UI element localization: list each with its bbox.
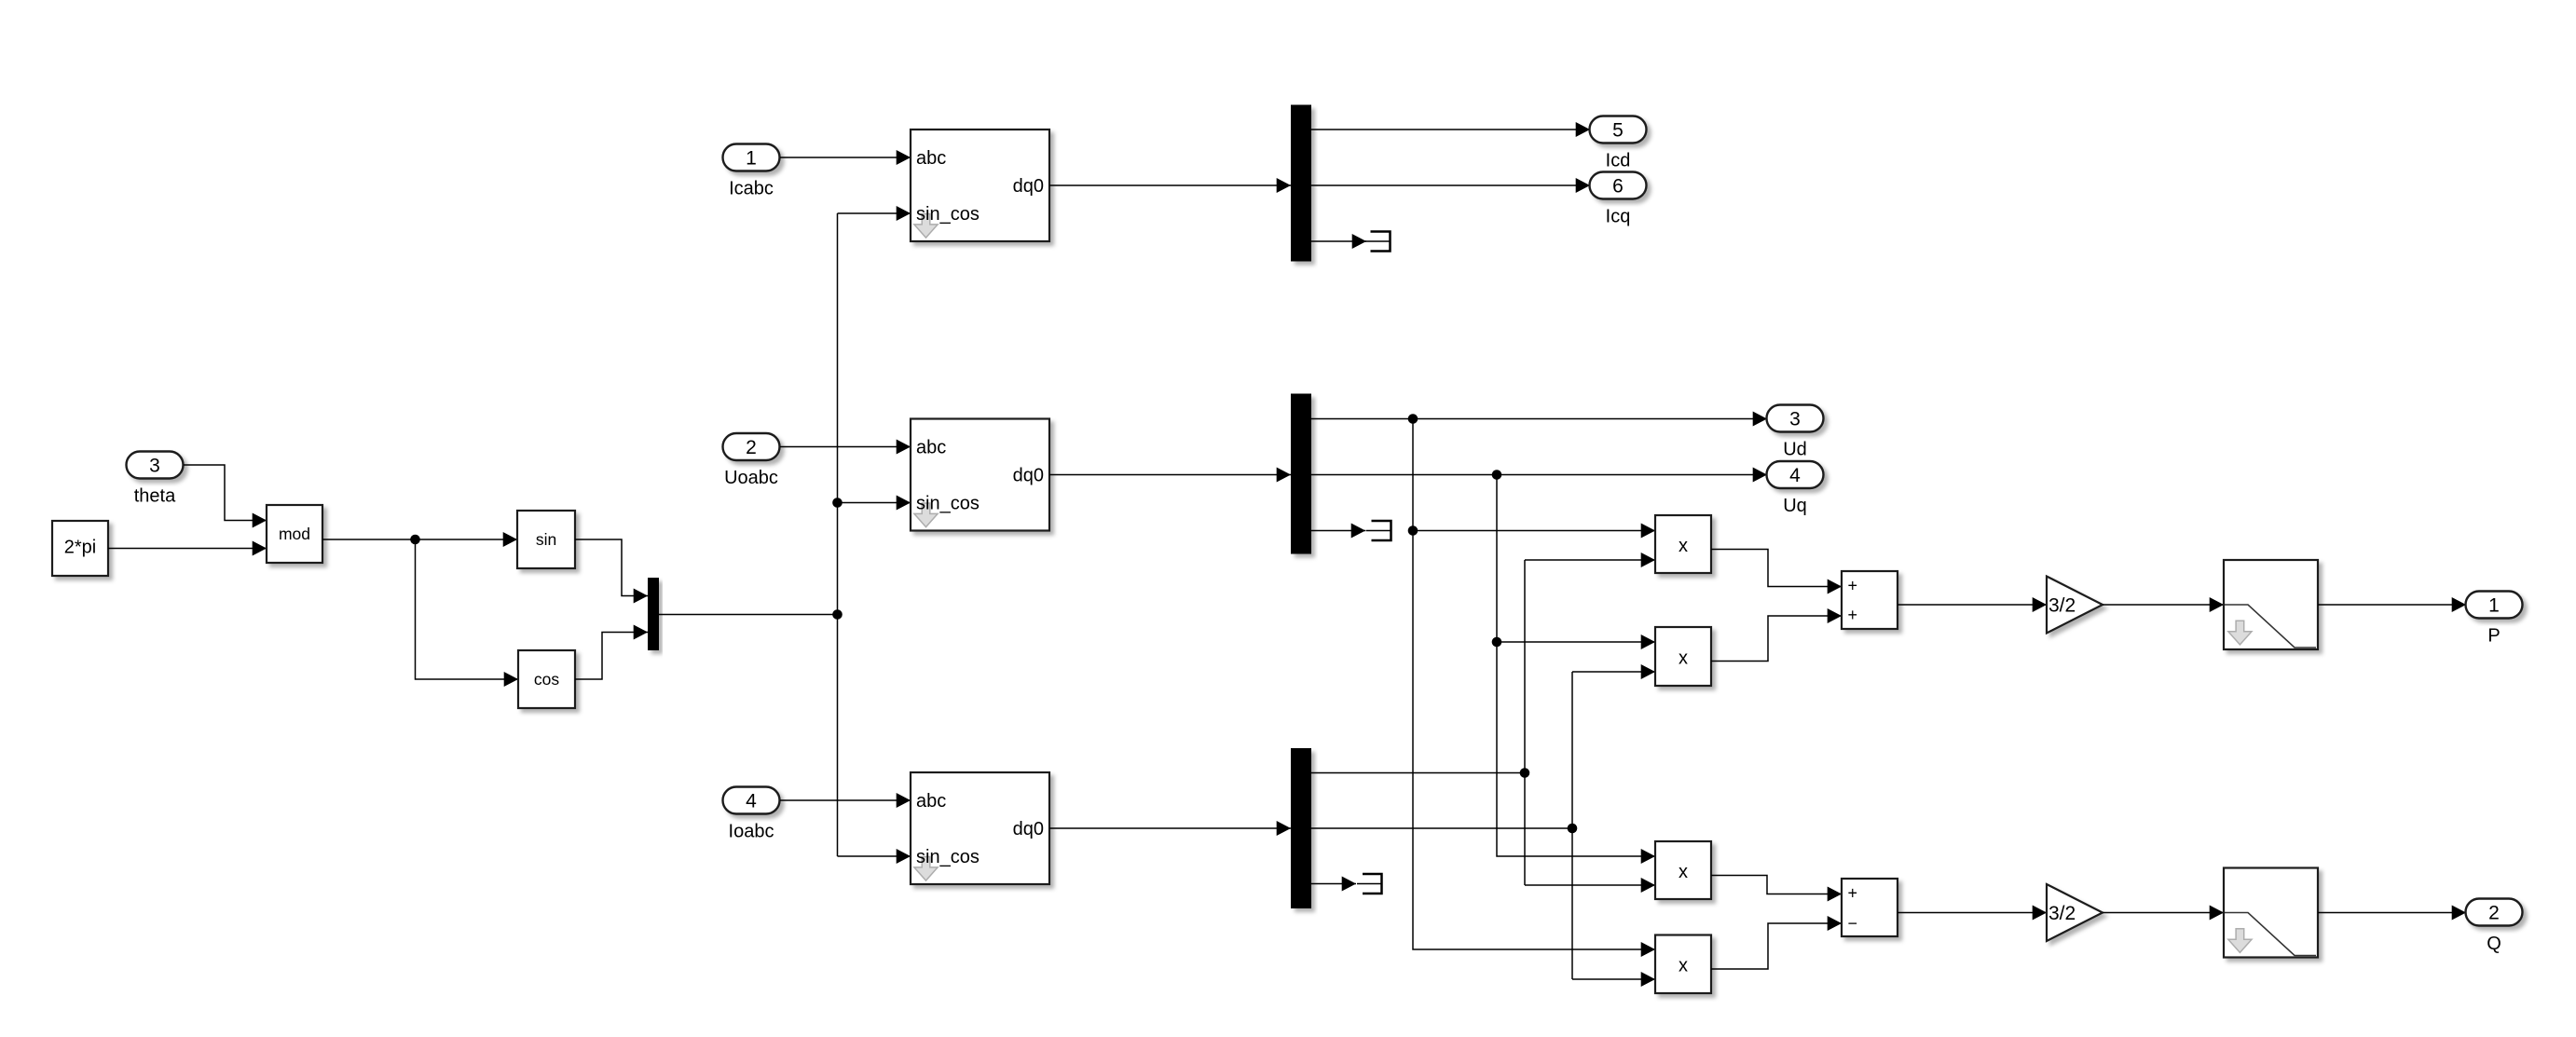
svg-text:dq0: dq0 [1013, 176, 1044, 197]
product block 4 [1655, 935, 1711, 994]
svg-text:sin_cos: sin_cos [916, 204, 980, 225]
wire sin to mux in1 [575, 539, 648, 596]
svg-text:Q: Q [2487, 934, 2501, 954]
product block 2 [1655, 627, 1711, 686]
svg-text:2: 2 [2488, 903, 2500, 924]
outport 1 P [2466, 592, 2523, 619]
wire Iod to product 3 in2 [1525, 884, 1655, 886]
inport 4 Ioabc [723, 787, 780, 814]
wire Uq to product 2 in1 [1497, 641, 1655, 643]
svg-text:Ud: Ud [1783, 440, 1807, 460]
svg-text:Uq: Uq [1783, 496, 1807, 516]
wire sin_cos vertical bus [837, 213, 839, 856]
svg-text:3/2: 3/2 [2048, 903, 2076, 924]
wire sum1 to gain 1 [1898, 604, 2047, 606]
node Ud [1408, 414, 1418, 424]
wire filter2 to outport 2 Q [2318, 912, 2466, 914]
svg-text:sin: sin [536, 530, 556, 549]
wire Ud vertical feed [1413, 419, 1655, 950]
wire dq0 1 to demux 1 [1049, 184, 1291, 186]
gain block 1 3/2 [2047, 577, 2103, 634]
terminator 1 [1371, 232, 1391, 252]
wire demux1 out3 to terminator 1 [1311, 240, 1366, 242]
sum block 2 [1842, 879, 1898, 936]
svg-text:abc: abc [916, 791, 946, 812]
wire Ioabc to abc-dq0 3 [780, 799, 911, 801]
wire dq0 3 to demux 3 [1049, 827, 1291, 829]
svg-text:4: 4 [1789, 465, 1801, 486]
inport 2 Uoabc [723, 433, 780, 460]
svg-text:dq0: dq0 [1013, 819, 1044, 839]
svg-text:Icq: Icq [1606, 207, 1631, 227]
node mod-out branch [410, 535, 420, 545]
node sin_cos to block2 [832, 498, 843, 508]
trig block cos [518, 650, 575, 708]
node Iod [1520, 768, 1530, 778]
wire mux out to sin_cos bus [659, 614, 838, 616]
svg-text:Ioabc: Ioabc [729, 822, 774, 842]
svg-text:mod: mod [279, 525, 310, 543]
svg-text:1: 1 [746, 148, 757, 170]
svg-text:abc: abc [916, 148, 946, 169]
outport 2 Q [2466, 899, 2523, 926]
inport 3 theta [127, 452, 184, 479]
outport 5 Icd [1590, 116, 1647, 143]
trig block sin [517, 511, 575, 568]
wire Uq vertical feed [1497, 475, 1655, 857]
node Uq to product 2 [1492, 637, 1502, 648]
wire demux1 out1 to outport 5 [1311, 129, 1590, 130]
svg-text:P: P [2487, 626, 2500, 647]
wire bus to abc-dq0 2 sin_cos [838, 502, 911, 504]
svg-text:6: 6 [1612, 176, 1624, 198]
svg-text:3: 3 [149, 456, 160, 477]
svg-text:2*pi: 2*pi [64, 538, 96, 558]
wire Icabc to abc-dq0 1 [780, 157, 911, 158]
wire demux2 out3 to terminator 2 [1311, 530, 1365, 532]
wire Ud to product 1 in1 [1413, 530, 1655, 532]
gain block 2 3/2 [2047, 884, 2103, 941]
svg-text:x: x [1679, 536, 1688, 556]
node Ioq [1568, 824, 1578, 834]
svg-text:Icd: Icd [1606, 151, 1631, 171]
svg-text:theta: theta [134, 486, 176, 507]
svg-text:+: + [1848, 883, 1858, 902]
terminator 3 [1363, 874, 1382, 894]
wire demux3 out1 Iod [1311, 772, 1525, 774]
svg-text:−: − [1848, 914, 1858, 933]
math function block mod [267, 505, 322, 563]
svg-text:5: 5 [1612, 120, 1624, 142]
sum block 1 [1842, 571, 1898, 629]
inport 1 Icabc [723, 144, 780, 171]
wire product4 to sum2 - [1711, 923, 1842, 969]
wire 2*pi to mod in2 [108, 548, 267, 550]
svg-text:Icabc: Icabc [729, 179, 774, 199]
wire demux2 out1 Ud to outport 3 [1311, 418, 1767, 420]
lowpass filter block 1 [2224, 560, 2318, 649]
wire Ioq vertical feed [1571, 672, 1573, 979]
wire product3 to sum2 + [1711, 876, 1842, 894]
wire sum2 to gain 2 [1898, 912, 2047, 914]
svg-text:3/2: 3/2 [2048, 595, 2076, 617]
terminator 2 [1372, 521, 1391, 540]
mux sin_cos [648, 578, 659, 650]
wire dq0 2 to demux 2 [1049, 474, 1291, 476]
svg-text:x: x [1679, 956, 1688, 976]
product block 3 [1655, 841, 1711, 899]
wire Iod to product 1 in2 [1525, 559, 1655, 561]
abc-dq0 block 3 [911, 772, 1049, 884]
product block 1 [1655, 515, 1711, 573]
svg-text:sin_cos: sin_cos [916, 847, 980, 867]
lowpass filter block 2 [2224, 868, 2318, 958]
svg-text:1: 1 [2488, 595, 2500, 617]
svg-text:3: 3 [1789, 409, 1801, 430]
wire Ioq to product 2 in2 [1572, 671, 1655, 673]
svg-text:+: + [1848, 576, 1858, 594]
wire demux1 out2 to outport 6 [1311, 184, 1590, 186]
demux 3 [1291, 748, 1311, 908]
wire mod out to sin [322, 539, 517, 540]
wire demux3 out2 Ioq [1311, 827, 1572, 829]
abc-dq0 block 2 [911, 419, 1049, 531]
wire Iod vertical feed [1524, 560, 1526, 885]
wire cos to mux in2 [575, 633, 648, 680]
wire gain1 to filter 1 [2103, 604, 2224, 606]
svg-text:dq0: dq0 [1013, 466, 1044, 486]
wire filter1 to outport 1 P [2318, 604, 2466, 606]
outport 6 Icq [1590, 172, 1647, 199]
svg-text:2: 2 [746, 437, 757, 458]
svg-text:x: x [1679, 648, 1688, 669]
outport 3 Ud [1767, 405, 1824, 432]
wire gain2 to filter 2 [2103, 912, 2224, 914]
wire product1 to sum1 + [1711, 550, 1842, 587]
wire bus to abc-dq0 3 sin_cos [838, 855, 911, 857]
wire Ioq to product 4 in2 [1572, 978, 1655, 980]
node sin_cos at mux out [832, 609, 843, 620]
svg-text:4: 4 [746, 791, 757, 812]
svg-text:+: + [1848, 606, 1858, 624]
constant block 2*pi [52, 521, 108, 576]
svg-text:abc: abc [916, 438, 946, 458]
demux 2 [1291, 394, 1311, 554]
wire branch down to cos [416, 539, 519, 679]
svg-text:sin_cos: sin_cos [916, 494, 980, 514]
svg-text:Uoabc: Uoabc [724, 468, 778, 488]
demux 1 [1291, 105, 1311, 262]
abc-dq0 block 1 [911, 130, 1049, 241]
wire product2 to sum1 + [1711, 616, 1842, 662]
outport 4 Uq [1767, 461, 1824, 488]
node Uq [1492, 470, 1502, 480]
wire bus to abc-dq0 1 sin_cos [838, 212, 911, 214]
svg-text:x: x [1679, 862, 1688, 882]
wire demux2 out2 Uq to outport 4 [1311, 474, 1767, 476]
node Ud to product 1 [1408, 525, 1418, 536]
wire theta to mod in1 [184, 465, 267, 521]
svg-text:cos: cos [534, 670, 559, 689]
wire Uoabc to abc-dq0 2 [780, 446, 911, 448]
wire demux3 out3 to terminator 3 [1311, 883, 1356, 885]
